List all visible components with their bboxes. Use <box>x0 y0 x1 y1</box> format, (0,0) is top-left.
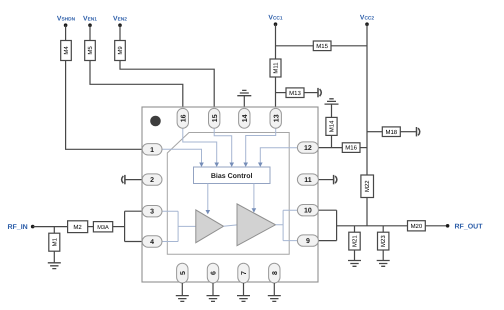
svg-text:M3A: M3A <box>97 225 109 231</box>
resistor M5 <box>85 41 96 61</box>
wire VCC1 to M11 <box>275 24 277 59</box>
wire VCC2 to M18 <box>367 131 382 133</box>
svg-text:M20: M20 <box>411 223 423 230</box>
node VCC1 <box>268 15 282 26</box>
svg-text:VEN1: VEN1 <box>83 16 97 23</box>
wire VEN1 to M5 <box>89 25 91 40</box>
node RF_IN <box>31 225 35 229</box>
wire pin 6 to ground <box>212 283 214 296</box>
svg-text:M21: M21 <box>352 235 359 247</box>
node VEN2 <box>113 16 127 27</box>
svg-text:M18: M18 <box>385 129 397 136</box>
wire junction to M23 <box>382 226 384 232</box>
resistor M13 <box>286 88 304 98</box>
wire M23 to ground <box>382 250 384 261</box>
ground below pin 8 <box>268 296 281 302</box>
resistor M15 <box>313 41 331 51</box>
wire M1 to ground <box>53 251 55 263</box>
ground below M21 <box>348 261 361 267</box>
wire pin 7 to ground <box>243 283 245 296</box>
wire pin 1 to bias control <box>162 149 202 163</box>
wire VSHDN to M4 <box>65 25 67 40</box>
resistor M9 <box>115 41 126 61</box>
wire pin 15 to bias control <box>214 128 232 163</box>
svg-text:3: 3 <box>150 209 154 216</box>
wire M18 to capacitor <box>400 131 416 133</box>
ground below M23 <box>377 261 390 267</box>
pin 3 <box>142 206 162 217</box>
ground (up) at M14 <box>325 99 339 118</box>
svg-text:10: 10 <box>304 208 312 215</box>
input bracket to pins 3 and 4 <box>125 211 143 241</box>
wire VCC2 vertical to M22 <box>366 24 368 175</box>
resistor M22 <box>361 175 374 198</box>
wire bias control to amplifier 2 <box>253 184 255 209</box>
resistor M3A <box>93 222 112 232</box>
wire M9 to pin 15 <box>120 61 214 109</box>
svg-text:M23: M23 <box>380 235 387 247</box>
wire pin 16 to bias control <box>183 128 217 163</box>
resistor M21 <box>349 232 360 250</box>
capacitor at M13 <box>318 88 321 97</box>
pin 12 <box>297 142 318 153</box>
node VEN1 <box>83 16 97 27</box>
svg-text:14: 14 <box>242 114 249 122</box>
wire junction to M1 <box>53 227 55 234</box>
amplifier stage 1 <box>196 210 224 243</box>
svg-text:5: 5 <box>180 271 187 275</box>
pin 16 <box>177 108 188 128</box>
svg-text:M14: M14 <box>329 120 336 132</box>
wire M13 to capacitor <box>304 92 317 94</box>
wire M11 to pin 13 <box>275 77 277 108</box>
svg-text:12: 12 <box>304 145 312 152</box>
wire pin 5 to ground <box>181 283 183 296</box>
svg-text:M1: M1 <box>51 237 58 246</box>
node VCC2 <box>360 15 374 26</box>
node RF_OUT <box>446 224 450 228</box>
pin 13 <box>270 108 281 128</box>
wire M5 to pin 16 <box>90 61 183 109</box>
wire amplifier 1 to amplifier 2 <box>224 225 238 226</box>
wire M4 to pin 1 <box>66 61 143 150</box>
pin 1 marker dot <box>150 116 161 127</box>
wire M22 to output line <box>366 198 368 226</box>
wire bias control to amplifier 1 <box>207 184 209 211</box>
node VSHDN <box>57 16 76 27</box>
ground below pin 7 <box>237 296 250 302</box>
pin 4 <box>142 236 162 247</box>
wire junction to M21 <box>354 226 356 232</box>
svg-text:VCC1: VCC1 <box>268 15 282 22</box>
pin 6 <box>207 263 218 283</box>
svg-text:2: 2 <box>150 177 154 184</box>
pin 11 <box>297 174 318 185</box>
pin 7 <box>238 263 249 283</box>
svg-text:VEN2: VEN2 <box>113 16 127 23</box>
wire pin 13 to bias control <box>246 128 276 163</box>
IC package U1 <box>142 107 318 282</box>
svg-text:16: 16 <box>180 114 187 122</box>
ground below pin 6 <box>207 296 220 302</box>
capacitor at pin 11 <box>318 175 337 184</box>
svg-text:1: 1 <box>150 147 154 154</box>
wire pin 12 to bias control <box>260 148 297 163</box>
wire M2 to M3A <box>88 226 94 228</box>
resistor M23 <box>378 232 389 250</box>
svg-text:RF_IN: RF_IN <box>8 224 28 231</box>
resistor M1 <box>49 233 60 251</box>
ground below M1 <box>48 263 61 269</box>
svg-text:VCC2: VCC2 <box>360 15 374 22</box>
wire amplifier 2 to pins 10,9 <box>276 210 298 240</box>
resistor M14 <box>326 117 337 135</box>
svg-text:M9: M9 <box>117 46 124 55</box>
svg-text:9: 9 <box>306 238 310 245</box>
wire M21 to ground <box>354 250 356 261</box>
pin 5 <box>177 263 188 283</box>
pin 15 <box>209 108 220 128</box>
pin 10 <box>297 205 318 216</box>
pin 2 <box>142 174 162 185</box>
svg-text:M13: M13 <box>289 90 301 97</box>
resistor M11 <box>270 59 281 77</box>
bias control block <box>194 167 271 184</box>
ground below pin 5 <box>176 296 189 302</box>
resistor M4 <box>61 41 72 61</box>
svg-text:M15: M15 <box>316 43 328 50</box>
svg-text:4: 4 <box>150 239 154 246</box>
capacitor at pin 2 <box>122 175 143 184</box>
wire VCC1 to M13 <box>276 92 287 94</box>
svg-text:13: 13 <box>273 114 280 122</box>
pin 1 <box>142 144 162 155</box>
capacitor at M18 <box>417 127 420 136</box>
svg-text:M22: M22 <box>364 180 371 192</box>
ground (up) at pin 14 <box>237 90 251 108</box>
svg-text:M5: M5 <box>87 46 94 55</box>
resistor M2 <box>68 221 88 233</box>
svg-text:RF_OUT: RF_OUT <box>455 223 484 230</box>
amplifier stage 2 <box>237 204 276 246</box>
pin 8 <box>269 263 280 283</box>
wire M20 to RF_OUT <box>425 225 447 227</box>
pin 14 <box>239 108 250 128</box>
svg-text:Bias Control: Bias Control <box>211 172 253 180</box>
svg-text:8: 8 <box>272 271 279 275</box>
wire output line <box>349 225 408 227</box>
wire pins 3,4 to amplifier input <box>162 211 196 241</box>
wire RF_IN to M2 <box>33 226 68 228</box>
svg-text:15: 15 <box>212 114 219 122</box>
pin 9 <box>297 235 318 246</box>
wire pin 8 to ground <box>273 283 275 296</box>
svg-text:VSHDN: VSHDN <box>57 16 76 23</box>
wire M16 to VCC2 <box>360 147 367 149</box>
wire pin 12 to M16 <box>318 147 342 149</box>
resistor M20 <box>408 221 426 231</box>
svg-text:11: 11 <box>304 177 312 184</box>
wire M14 to pin12 line <box>331 135 333 147</box>
wire M3A to input bracket <box>113 226 125 228</box>
svg-text:M2: M2 <box>73 224 82 231</box>
wire VEN2 to M9 <box>119 25 121 40</box>
svg-text:6: 6 <box>211 271 218 275</box>
svg-text:M16: M16 <box>345 145 357 152</box>
svg-text:7: 7 <box>241 271 248 275</box>
wire VCC1 to M15 <box>276 45 314 47</box>
die outline <box>167 133 289 255</box>
resistor M18 <box>382 127 400 137</box>
svg-text:M4: M4 <box>63 46 70 55</box>
wire M15 to VCC2 <box>331 45 367 47</box>
resistor M16 <box>342 143 360 153</box>
svg-text:M11: M11 <box>273 62 280 74</box>
output bracket pins 10 and 9 <box>318 210 349 240</box>
